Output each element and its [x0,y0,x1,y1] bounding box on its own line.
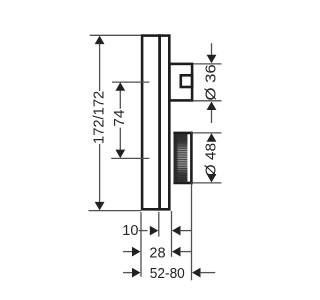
svg-text:Ø 36: Ø 36 [204,64,220,100]
dimension 28: right tail [180,251,192,253]
extension line C (sleeve front) [171,211,173,257]
thermostat handle right face [190,132,193,185]
shut-off handle inner square [181,75,192,87]
extension line top (172/172) [90,34,141,36]
arrow 52-80 left [132,268,141,278]
escutcheon plate (side view, outer rectangle) [142,36,160,210]
arrow 28 right [172,247,181,257]
shut-off handle (top, square) [169,64,192,101]
arrow 10 right [172,226,181,236]
dimension line Ø36 upper tail [211,43,213,55]
dimension line 74 [119,91,121,109]
extension line B (plate front) [158,212,160,237]
thermostat handle bottom edge [173,182,192,185]
arrow 10 left [150,226,159,236]
svg-text:52-80: 52-80 [150,266,185,282]
svg-text:10: 10 [122,223,138,239]
extension line Ø36 bottom [193,100,221,102]
arrow Ø48 top [207,133,217,142]
arrow Ø36 bottom [207,102,217,111]
arrow 172 top [95,36,105,45]
svg-text:172/172: 172/172 [92,91,108,144]
carrier sleeve (second rectangle) [160,36,170,210]
arrow Ø36 top [207,55,217,64]
dimension 52-80: left tail [123,272,134,274]
dimension line Ø36 lower tail [211,110,213,123]
arrow 74 top [115,82,125,91]
arrow 74 bottom [115,150,125,159]
dimension 10: right tail [180,230,192,232]
dimension 28: left tail [123,251,134,253]
arrow 28 left [132,247,141,257]
extension line Ø36 top [193,63,221,65]
svg-text:Ø 48: Ø 48 [204,143,220,176]
extension line A (wall face) [140,212,142,277]
svg-text:28: 28 [149,246,165,262]
dimension line 172/172 [99,43,101,91]
extension line bottom (172/172) [89,210,142,212]
centerline thermostat handle [111,157,149,159]
arrow 52-80 right [192,268,201,278]
dimension 10: left tail [139,230,148,232]
thermostat knurled handle: knurl texture band [174,134,188,182]
arrow 172 bottom [95,202,105,211]
extension line Ø48 top [191,132,222,134]
extension line D (handle front) [191,184,193,280]
extension line Ø48 bottom [191,182,222,184]
dimension 52-80: right tail [200,272,215,274]
arrow Ø48 bottom [207,174,217,183]
thermostat handle top edge [173,132,192,135]
centerline shut-off handle [112,81,149,83]
svg-text:74: 74 [112,110,128,127]
